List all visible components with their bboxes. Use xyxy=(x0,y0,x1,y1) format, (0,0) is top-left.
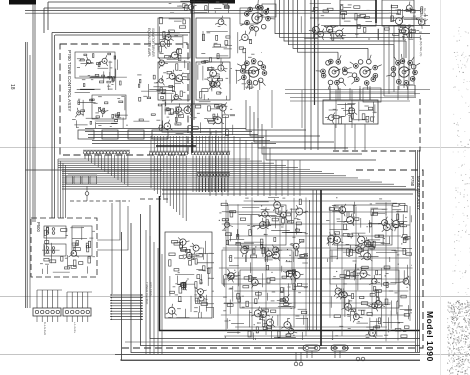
svg-text:TUNER PHONO: TUNER PHONO xyxy=(145,282,149,305)
svg-text:Model 1090: Model 1090 xyxy=(425,311,435,362)
svg-text:P500: P500 xyxy=(36,222,41,232)
svg-text:18: 18 xyxy=(9,84,15,90)
svg-text:ISOLATOR DRIVER: ISOLATOR DRIVER xyxy=(151,28,155,57)
svg-text:R-L-G-R+R: R-L-G-R+R xyxy=(43,322,47,335)
svg-text:P750: P750 xyxy=(410,176,415,187)
svg-text:P-(M) WH-(S): P-(M) WH-(S) xyxy=(419,38,423,56)
svg-text:+-L-G-R+: +-L-G-R+ xyxy=(73,322,77,333)
svg-text:GL-2M (GM): GL-2M (GM) xyxy=(423,8,427,25)
svg-text:AUX TAPE: AUX TAPE xyxy=(149,282,153,297)
svg-text:MAIN AMP ASSY: MAIN AMP ASSY xyxy=(416,176,421,210)
svg-text:EQUALIZER AMPL: EQUALIZER AMPL xyxy=(147,28,151,57)
svg-text:P700 TONE CONTROL ASSY: P700 TONE CONTROL ASSY xyxy=(67,50,72,111)
svg-text:GL-2M (GM): GL-2M (GM) xyxy=(419,8,423,26)
